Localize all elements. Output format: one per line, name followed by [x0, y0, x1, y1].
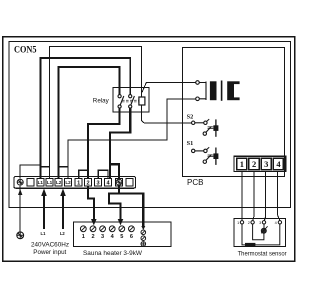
svg-text:3: 3 [259, 221, 261, 225]
svg-text:3: 3 [97, 180, 100, 186]
svg-text:240VAC60Hz: 240VAC60Hz [31, 242, 69, 249]
svg-text:PCB: PCB [187, 177, 204, 187]
svg-text:CON5: CON5 [14, 45, 37, 55]
svg-text:Thermostat sensor: Thermostat sensor [238, 251, 287, 258]
svg-text:1: 1 [240, 159, 244, 169]
svg-text:6: 6 [130, 234, 133, 240]
svg-text:L1: L1 [47, 180, 53, 185]
svg-text:S2: S2 [187, 113, 194, 120]
svg-text:1: 1 [237, 221, 239, 225]
svg-text:L2: L2 [56, 180, 62, 185]
svg-text:1: 1 [77, 180, 80, 186]
svg-text:Sauna heater 3-9kW: Sauna heater 3-9kW [83, 250, 143, 257]
svg-text:L2: L2 [60, 231, 66, 236]
svg-text:2: 2 [248, 221, 250, 225]
svg-text:S1: S1 [187, 140, 194, 147]
svg-text:Power input: Power input [33, 249, 66, 256]
svg-text:2: 2 [91, 234, 94, 240]
svg-text:L1: L1 [38, 180, 44, 185]
svg-text:2: 2 [87, 180, 90, 186]
svg-text:3: 3 [264, 159, 268, 169]
svg-text:3: 3 [101, 234, 104, 240]
svg-text:2: 2 [252, 159, 256, 169]
svg-text:Relay: Relay [93, 97, 110, 104]
svg-text:5: 5 [120, 234, 123, 240]
svg-text:L1: L1 [41, 231, 47, 236]
svg-text:4: 4 [275, 221, 277, 225]
svg-text:L2: L2 [65, 180, 71, 185]
svg-text:1: 1 [82, 234, 85, 240]
